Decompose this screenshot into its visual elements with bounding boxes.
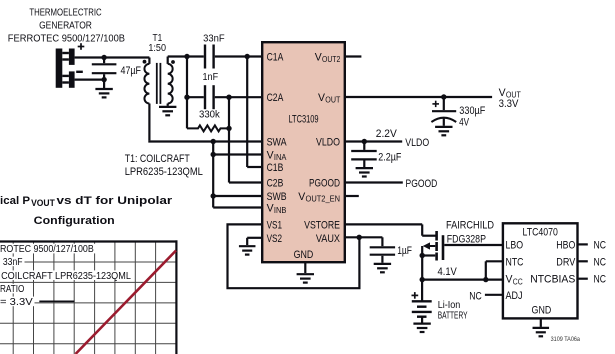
- svg-text:GND: GND: [532, 304, 552, 316]
- svg-text:GENERATOR: GENERATOR: [39, 21, 92, 32]
- svg-text:VS1: VS1: [267, 220, 282, 232]
- svg-text:NTCBIAS: NTCBIAS: [530, 274, 575, 286]
- svg-text:PGOOD: PGOOD: [406, 178, 438, 190]
- svg-text:vs dT for Unipolar: vs dT for Unipolar: [57, 195, 173, 207]
- svg-text:LTC3109: LTC3109: [288, 114, 318, 126]
- svg-text:BATTERY: BATTERY: [438, 311, 468, 322]
- svg-text:OUT2: OUT2: [322, 55, 341, 64]
- svg-text:LTC4070: LTC4070: [523, 227, 558, 239]
- svg-text:T1: COILCRAFT: T1: COILCRAFT: [125, 153, 190, 165]
- svg-text:C2A: C2A: [267, 92, 284, 104]
- svg-text:OUT2_EN: OUT2_EN: [306, 195, 341, 204]
- svg-text:VS2: VS2: [267, 233, 282, 245]
- svg-text:NC: NC: [594, 239, 607, 251]
- svg-text:CC: CC: [513, 277, 523, 286]
- svg-text:PGOOD: PGOOD: [309, 178, 340, 190]
- svg-text:4.1V: 4.1V: [438, 266, 458, 278]
- svg-text:VSTORE: VSTORE: [304, 220, 340, 232]
- svg-text:C1B: C1B: [267, 162, 284, 174]
- svg-text:330k: 330k: [199, 110, 221, 121]
- svg-text:3.3V: 3.3V: [499, 98, 519, 110]
- svg-text:VLDO: VLDO: [316, 137, 340, 149]
- svg-text:THERMOELECTRIC: THERMOELECTRIC: [29, 8, 101, 19]
- svg-text:GND: GND: [294, 249, 314, 261]
- svg-text:1nF: 1nF: [203, 72, 219, 83]
- svg-text:2.2µF: 2.2µF: [378, 152, 401, 164]
- svg-text:SWA: SWA: [267, 137, 288, 149]
- svg-text:FDG328P: FDG328P: [447, 234, 486, 246]
- svg-text:VOUT: VOUT: [31, 198, 55, 208]
- svg-text:33nF: 33nF: [3, 257, 23, 268]
- svg-text:3109 TA06a: 3109 TA06a: [551, 336, 581, 343]
- svg-text:Configuration: Configuration: [34, 215, 115, 227]
- svg-text:NTC: NTC: [506, 256, 524, 268]
- svg-text:4V: 4V: [459, 117, 469, 129]
- svg-text:ROTEC 9500/127/100B: ROTEC 9500/127/100B: [0, 244, 94, 255]
- svg-text:Li-Ion: Li-Ion: [438, 300, 461, 311]
- svg-text:NC: NC: [469, 291, 482, 303]
- svg-text:DRV: DRV: [556, 256, 576, 268]
- svg-text:LBO: LBO: [506, 239, 524, 251]
- svg-text:VAUX: VAUX: [316, 233, 341, 245]
- svg-text:INB: INB: [274, 206, 287, 215]
- svg-text:1µF: 1µF: [397, 245, 412, 257]
- svg-text:OUT: OUT: [325, 96, 340, 105]
- svg-text:2.2V: 2.2V: [376, 128, 398, 140]
- svg-text:ical P: ical P: [0, 195, 30, 207]
- svg-text:FERROTEC 9500/127/100B: FERROTEC 9500/127/100B: [8, 34, 126, 45]
- svg-text:C2B: C2B: [267, 178, 284, 190]
- svg-text:C1A: C1A: [267, 52, 284, 64]
- svg-text:LPR6235-123QML: LPR6235-123QML: [125, 166, 203, 178]
- svg-text:VLDO: VLDO: [405, 137, 429, 149]
- svg-text:47µF: 47µF: [121, 65, 142, 77]
- svg-text:= 3.3V: = 3.3V: [0, 297, 33, 308]
- svg-text:RATIO: RATIO: [0, 284, 25, 295]
- svg-text:SWB: SWB: [267, 191, 287, 203]
- svg-text:FAIRCHILD: FAIRCHILD: [446, 220, 494, 232]
- svg-text:ADJ: ADJ: [506, 290, 523, 302]
- svg-text:NC: NC: [594, 256, 607, 268]
- svg-text:NC: NC: [594, 274, 607, 286]
- svg-text:1:50: 1:50: [148, 43, 166, 54]
- svg-text:330µF: 330µF: [459, 105, 485, 117]
- svg-text:33nF: 33nF: [203, 34, 225, 45]
- svg-text:COILCRAFT LPR6235-123QML: COILCRAFT LPR6235-123QML: [1, 271, 131, 282]
- svg-text:HBO: HBO: [556, 239, 575, 251]
- svg-text:INA: INA: [274, 153, 287, 162]
